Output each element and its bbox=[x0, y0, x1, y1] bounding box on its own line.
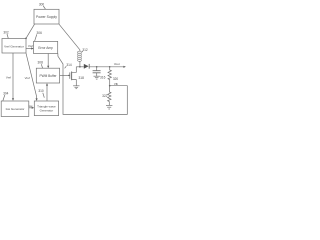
label 300 bbox=[39, 3, 46, 10]
svg-text:Vref: Vref bbox=[25, 76, 30, 80]
node resistor divider top junction bbox=[109, 66, 111, 68]
wire Vref Generator to Error Amp bbox=[26, 48, 32, 50]
svg-text:Power Supply: Power Supply bbox=[36, 15, 57, 19]
wire feedback Error Amp corner to bottom loop bbox=[58, 54, 127, 115]
arrowhead into Error Amp bbox=[31, 47, 34, 49]
svg-text:316: 316 bbox=[100, 75, 106, 79]
svg-text:Vfb: Vfb bbox=[114, 82, 119, 86]
label 312 bbox=[82, 48, 88, 52]
wire Error Amp to PWM Buffer bbox=[47, 54, 49, 68]
arrowhead into Triangle wave Generator bbox=[36, 98, 38, 101]
svg-text:PWM Buffer: PWM Buffer bbox=[39, 74, 57, 78]
node gate junction bbox=[68, 75, 69, 76]
svg-text:Vout: Vout bbox=[114, 62, 120, 66]
node Vfb junction bbox=[109, 85, 111, 87]
label 310 bbox=[38, 89, 44, 97]
label 302 bbox=[3, 31, 9, 39]
svg-text:306: 306 bbox=[37, 31, 43, 35]
arrowhead into Isw Generator bbox=[12, 98, 14, 101]
block Isw Generator 304 bbox=[1, 101, 29, 117]
label 308 bbox=[38, 61, 44, 68]
label 304 bbox=[3, 92, 9, 101]
block Vref Generator 302 bbox=[2, 39, 26, 54]
resistor R 320 bbox=[108, 67, 111, 86]
wire Power Supply to inductor (diagonal) bbox=[59, 24, 80, 50]
block Power Supply 300 bbox=[34, 9, 59, 24]
arrowhead into PWM Buffer bbox=[47, 66, 49, 69]
svg-text:Vref: Vref bbox=[6, 76, 11, 80]
svg-text:Error Amp: Error Amp bbox=[38, 46, 53, 50]
resistor R 322 bbox=[108, 86, 111, 106]
capacitor C 316 bbox=[93, 67, 101, 76]
svg-text:302: 302 bbox=[3, 31, 9, 35]
wire PWM Buffer to transistor gate bbox=[60, 74, 69, 76]
block Triangle wave Generator 310 bbox=[34, 101, 58, 116]
wire Isw Generator to Triangle wave Generator bbox=[29, 107, 33, 109]
svg-text:314: 314 bbox=[66, 63, 72, 67]
block Error Amp 306 bbox=[34, 41, 58, 53]
transistor Q 318 (NMOS switch) bbox=[70, 67, 77, 86]
wire Vref Generator to Isw Generator bbox=[12, 53, 14, 99]
wire Power Supply to Vref Generator (diagonal) bbox=[26, 24, 35, 38]
node inductor junction bbox=[79, 66, 81, 68]
svg-text:318: 318 bbox=[79, 76, 85, 80]
arrowhead Vout bbox=[123, 66, 126, 68]
node capacitor junction bbox=[96, 66, 98, 68]
wire diode cathode to Vout bbox=[89, 66, 124, 68]
arrowhead into PWM Buffer bottom bbox=[46, 83, 48, 86]
block PWM Buffer 308 bbox=[36, 68, 59, 83]
svg-text:Generator: Generator bbox=[40, 109, 54, 113]
arrowhead into Triangle wave Generator left bbox=[32, 107, 35, 109]
wire Triangle wave Generator to PWM Buffer bbox=[46, 84, 48, 101]
ground under transistor bbox=[73, 86, 79, 89]
svg-text:322: 322 bbox=[102, 94, 108, 98]
svg-text:Isw Generator: Isw Generator bbox=[6, 107, 25, 111]
svg-text:Vref: Vref bbox=[28, 44, 33, 48]
diode D 314 bbox=[84, 64, 89, 69]
wire main output rail bbox=[76, 66, 84, 68]
svg-text:304: 304 bbox=[3, 92, 9, 96]
svg-text:320: 320 bbox=[113, 77, 119, 81]
svg-text:308: 308 bbox=[38, 61, 44, 65]
ground under capacitor bbox=[94, 76, 100, 79]
ground under resistor 322 bbox=[106, 105, 112, 109]
label 314 bbox=[65, 63, 72, 68]
svg-text:312: 312 bbox=[82, 48, 88, 52]
svg-text:Isw: Isw bbox=[29, 104, 33, 108]
label 306 bbox=[35, 31, 42, 41]
svg-text:Vref Generator: Vref Generator bbox=[4, 44, 24, 48]
svg-text:310: 310 bbox=[38, 89, 44, 93]
node junction at Vref Generator corner bbox=[25, 38, 27, 40]
wire Vref Generator to Triangle wave Generator (diagonal) bbox=[26, 53, 37, 99]
inductor L 312 bbox=[78, 50, 82, 67]
